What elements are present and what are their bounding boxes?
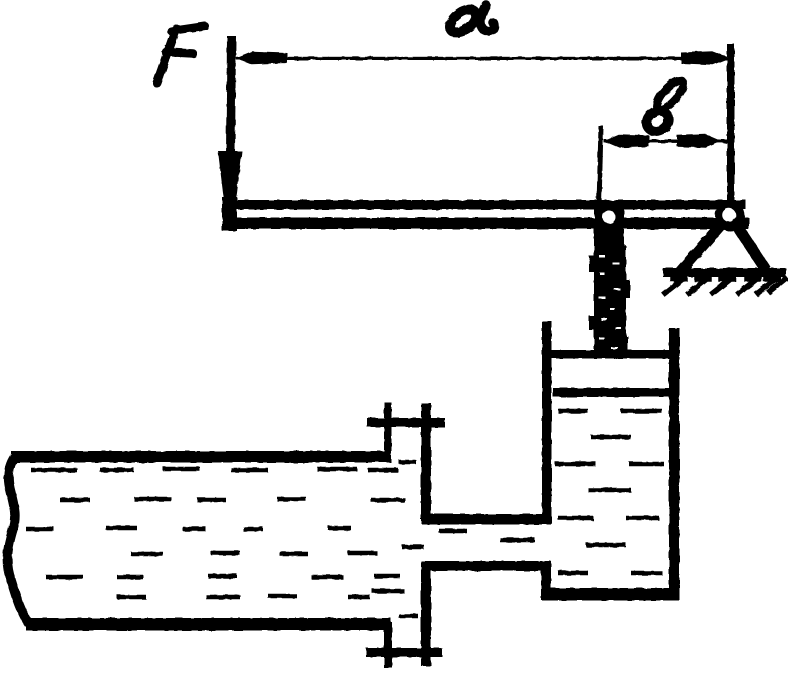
fluid dashes cylinder bbox=[555, 411, 664, 573]
force arrow F bbox=[218, 36, 242, 227]
fluid dashes pipe/duct bbox=[372, 462, 535, 616]
connecting duct top wall bbox=[422, 514, 551, 525]
cylinder left wall bbox=[542, 321, 552, 524]
fixed pivot B bbox=[715, 201, 745, 231]
dimension line b bbox=[604, 134, 729, 148]
piston bbox=[551, 350, 671, 397]
dimension label a bbox=[446, 5, 494, 37]
force label F bbox=[157, 26, 205, 83]
ground line bbox=[663, 268, 786, 277]
pivot support triangle bbox=[679, 226, 766, 273]
pipe break mark bottom (cross bar) bbox=[366, 648, 442, 657]
pipe break mark bottom (left stub) bbox=[384, 622, 392, 668]
dimension line a bbox=[235, 51, 730, 65]
reservoir bottom wall bbox=[26, 618, 391, 631]
lever beam bbox=[222, 197, 749, 231]
extension line left above pin A bbox=[599, 126, 601, 206]
cylinder bottom bbox=[542, 588, 679, 601]
extension line right of a/b at pivot B bbox=[727, 44, 735, 209]
cylinder right wall bbox=[669, 328, 680, 600]
pipe break mark top (left stub) bbox=[384, 402, 392, 454]
reservoir left torn edge bbox=[7, 455, 29, 624]
piston rod (scribbled) bbox=[589, 245, 630, 355]
vertical pipe right wall lower bbox=[421, 561, 431, 666]
duct step down to cylinder bottom bbox=[541, 561, 551, 600]
ground hatching bbox=[665, 278, 785, 293]
fluid dashes reservoir bbox=[26, 469, 405, 597]
reservoir top wall bbox=[11, 451, 391, 463]
pin joint A (rod to lever) bbox=[594, 203, 624, 250]
vertical pipe right wall upper bbox=[421, 403, 431, 520]
connecting duct bottom wall bbox=[422, 561, 550, 571]
dimension label b bbox=[643, 77, 688, 136]
pipe break mark top (cross bar) bbox=[367, 418, 445, 427]
